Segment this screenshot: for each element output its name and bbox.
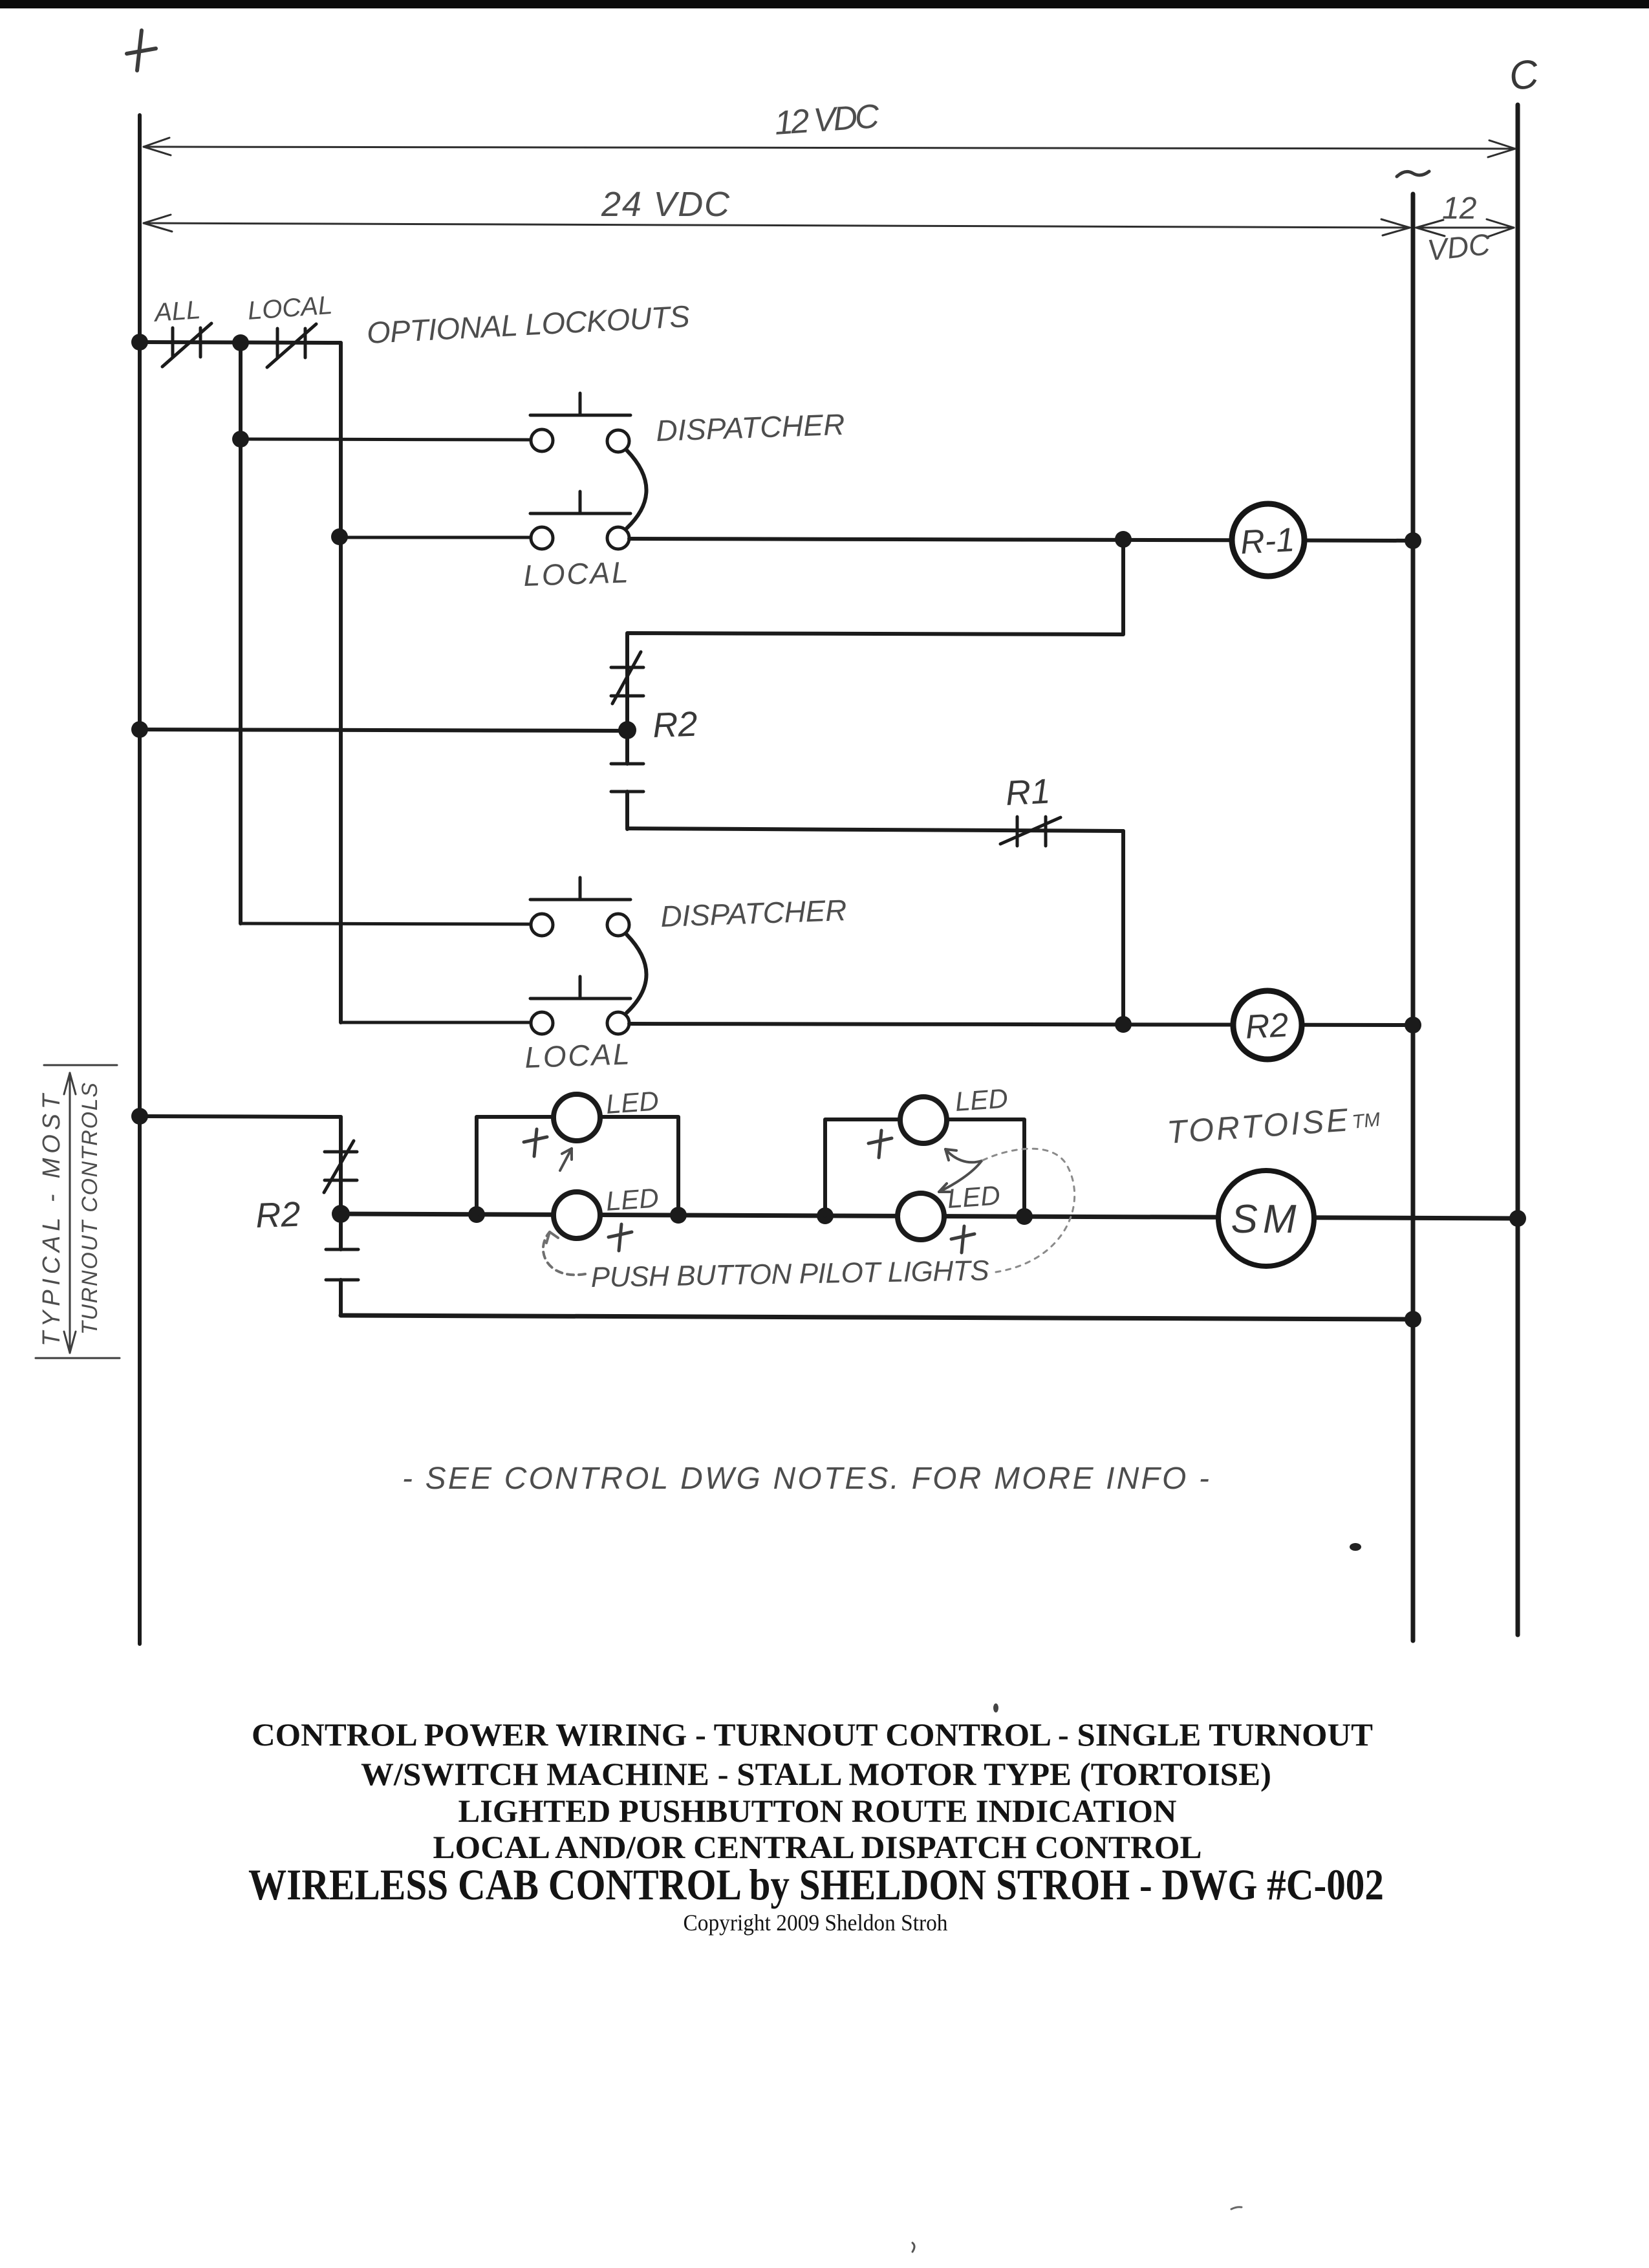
svg-text:CONTROL POWER WIRING - TURNOUT: CONTROL POWER WIRING - TURNOUT CONTROL -… [252, 1716, 1373, 1753]
plus mark LED lower 1 [609, 1224, 632, 1251]
wire to local 2 [341, 1021, 531, 1024]
wire: down to R2 coil rung [1121, 831, 1125, 1024]
wire to local 1 [339, 536, 531, 539]
node: R1 rung / mid rail [1405, 532, 1421, 549]
wire: R1 rung down to R2 NC branch [627, 539, 1123, 730]
node: left rail / pilot rung [131, 1108, 148, 1125]
pushbutton DISPATCHER 2 [530, 878, 630, 936]
arrowhead leader LED lower 1 [546, 1232, 558, 1243]
plus mark LED lower 2 [951, 1226, 975, 1253]
12 VDC mid return rail [1411, 194, 1416, 1641]
relay contact R2 (NC, transfer top) [611, 652, 643, 704]
relay contact R2 #2 (NC, transfer top) [324, 1117, 357, 1214]
right power rail C [1516, 105, 1520, 1635]
svg-text:LED: LED [605, 1182, 660, 1216]
wire: R2 NO out to R1 contact [627, 828, 1123, 831]
svg-text:ALL: ALL [153, 296, 202, 327]
lockout contact LOCAL (NC) [267, 324, 316, 367]
svg-text:24 VDC: 24 VDC [601, 185, 730, 224]
stray ink blob [1350, 1543, 1361, 1551]
vertical feeder after LOCAL contact [339, 343, 343, 1022]
node: return wire / mid rail [1405, 1311, 1421, 1328]
relay contact R2 (NO, transfer bottom) [611, 730, 643, 829]
relay contact R1 (NC interlock) [1000, 817, 1061, 846]
svg-text:LOCAL: LOCAL [523, 555, 629, 592]
svg-text:12: 12 [1442, 191, 1476, 226]
plus mark LED upper 2 [868, 1130, 892, 1158]
LED lower 2 [898, 1193, 944, 1240]
svg-text:R2: R2 [1244, 1006, 1289, 1046]
24 VDC dimension line [144, 215, 1410, 235]
12 VDC right dimension line [1416, 219, 1514, 237]
lockout rung wire [140, 342, 341, 343]
svg-text:R2: R2 [255, 1195, 301, 1235]
node: feeder to dispatcher 1 [232, 431, 249, 448]
third rung from left rail [140, 1116, 341, 1117]
node: LED branch 2 left [817, 1207, 834, 1224]
mechanical link arc 1 [627, 450, 647, 528]
node: R1 coil rung / NC branch [1115, 531, 1132, 548]
svg-text:12 VDC: 12 VDC [773, 98, 881, 142]
vertical feeder after ALL contact [239, 343, 242, 923]
svg-text:LOCAL: LOCAL [524, 1037, 630, 1074]
relay coil R2 [1233, 991, 1302, 1059]
pushbutton DISPATCHER 1 [530, 393, 630, 452]
svg-text:R-1: R-1 [1240, 521, 1296, 561]
node: R2 transfer common [618, 721, 636, 739]
node: R2 coil rung / interlock branch [1115, 1016, 1132, 1033]
12 VDC dimension line [144, 138, 1515, 157]
node: R2 rung / mid rail [1405, 1017, 1421, 1033]
stray speck marks [912, 2243, 914, 2252]
svg-text:W/SWITCH MACHINE - STALL MOTOR: W/SWITCH MACHINE - STALL MOTOR TYPE (TOR… [361, 1756, 1271, 1792]
svg-text:WIRELESS CAB CONTROL by SHELDO: WIRELESS CAB CONTROL by SHELDON STROH - … [248, 1860, 1384, 1909]
node: R2 #2 transfer common [332, 1205, 350, 1223]
dashed leader to LED lower 1 [543, 1232, 585, 1275]
small arrow to LED upper 1 [560, 1149, 572, 1171]
stray apostrophe mark [993, 1703, 998, 1712]
svg-text:SM: SM [1231, 1197, 1302, 1242]
wire to dispatcher 1 [241, 439, 531, 440]
node: LED branch 1 right [670, 1207, 687, 1224]
svg-text:TORTOISE: TORTOISE [1166, 1102, 1350, 1150]
svg-text:DISPATCHER: DISPATCHER [656, 407, 846, 448]
svg-text:TM: TM [1351, 1109, 1381, 1133]
svg-text:LIGHTED PUSHBUTTON ROUTE INDIC: LIGHTED PUSHBUTTON ROUTE INDICATION [458, 1793, 1177, 1829]
leader loop from pilot-lights note [982, 1149, 1075, 1272]
LED branch 1 wire [477, 1117, 678, 1215]
SM switch machine coil [1218, 1171, 1314, 1266]
LED upper 2 [900, 1097, 947, 1143]
relay coil R1 [1232, 504, 1304, 576]
rung: left rail to R2 common [140, 729, 627, 731]
pilot light rung wire [341, 1214, 1518, 1218]
LED upper 1 [554, 1094, 600, 1141]
svg-text:C: C [1506, 51, 1542, 100]
plus mark LED upper 1 [524, 1129, 547, 1156]
node: LED branch 2 right [1016, 1208, 1033, 1225]
wire local 1 to R1 coil [629, 539, 1413, 541]
node: left rail / R2 common rung [131, 721, 148, 738]
node: LED branch 1 left [468, 1206, 485, 1223]
node: feeder to local 1 [331, 528, 348, 545]
typical-most span arrow [36, 1065, 120, 1358]
node: between lockout contacts [232, 334, 249, 351]
svg-text:VDC: VDC [1426, 227, 1493, 267]
~ AC squiggle [1397, 171, 1429, 177]
scan edge bar [0, 0, 1649, 8]
bottom return wire [341, 1315, 1413, 1319]
svg-text:TURNOUT CONTROLS: TURNOUT CONTROLS [78, 1083, 102, 1335]
svg-text:R2: R2 [652, 705, 698, 745]
svg-text:Copyright 2009 Sheldon Stroh: Copyright 2009 Sheldon Stroh [684, 1910, 948, 1936]
left power rail + [138, 115, 142, 1644]
node: pilot rung / right rail [1509, 1210, 1526, 1227]
LED lower 1 [554, 1192, 600, 1238]
svg-text:PUSH BUTTON PILOT LIGHTS: PUSH BUTTON PILOT LIGHTS [590, 1255, 989, 1293]
pushbutton LOCAL 2 [530, 977, 630, 1034]
node: left rail / lockout rung [131, 334, 148, 351]
wire local 2 to R2 coil [629, 1024, 1413, 1025]
svg-text:LOCAL: LOCAL [247, 291, 334, 325]
pushbutton LOCAL 1 [530, 491, 630, 549]
mechanical link arc 2 [627, 934, 647, 1013]
relay contact R2 #2 (NO, transfer bottom) [326, 1214, 358, 1315]
svg-text:LED: LED [605, 1085, 660, 1119]
lockout contact ALL (NC) [162, 323, 211, 367]
annotation arrows to LED pair 2 [939, 1149, 982, 1192]
svg-text:R1: R1 [1004, 772, 1051, 813]
svg-text:- SEE CONTROL DWG NOTES. FOR M: - SEE CONTROL DWG NOTES. FOR MORE INFO - [402, 1462, 1209, 1496]
+ supply terminal [127, 30, 156, 70]
LED branch 2 wire [825, 1119, 1024, 1216]
svg-text:LED: LED [954, 1083, 1009, 1117]
wire to dispatcher 2 [241, 923, 531, 924]
svg-text:DISPATCHER: DISPATCHER [660, 893, 848, 933]
svg-text:OPTIONAL LOCKOUTS: OPTIONAL LOCKOUTS [366, 299, 691, 350]
svg-text:TYPICAL - MOST: TYPICAL - MOST [38, 1092, 65, 1346]
